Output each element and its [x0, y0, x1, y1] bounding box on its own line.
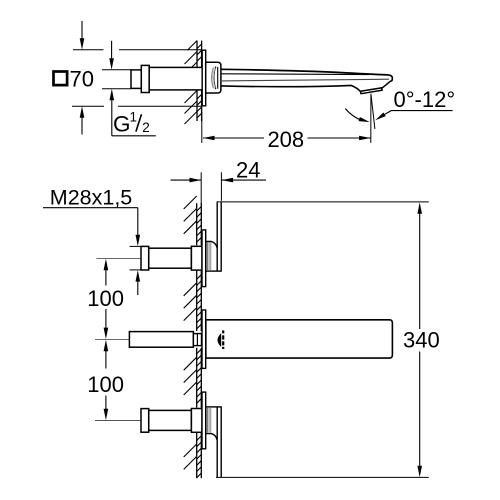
svg-text:24: 24	[236, 158, 260, 183]
svg-text:100: 100	[87, 372, 124, 397]
svg-text:100: 100	[87, 286, 124, 311]
svg-text:1: 1	[130, 110, 138, 125]
svg-text:0°-12°: 0°-12°	[394, 87, 456, 112]
svg-text:G: G	[113, 112, 131, 137]
svg-text:340: 340	[403, 328, 440, 353]
svg-text:70: 70	[70, 67, 94, 92]
svg-text:2: 2	[142, 120, 150, 135]
svg-text:M28x1,5: M28x1,5	[50, 186, 133, 210]
svg-text:208: 208	[267, 127, 304, 152]
